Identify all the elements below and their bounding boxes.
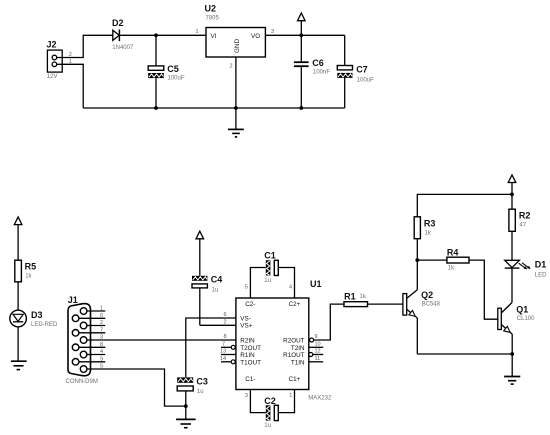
svg-text:12: 12 <box>315 349 321 355</box>
wire R5 to D3 <box>17 282 19 310</box>
pin number 3 (U2) <box>271 29 274 35</box>
node junction C5 top <box>154 33 158 37</box>
svg-text:2: 2 <box>224 319 227 325</box>
svg-text:C3: C3 <box>196 376 208 386</box>
node junction U2 GND <box>234 106 238 110</box>
pin number 9 (J1) <box>100 356 103 362</box>
label R3 <box>424 219 436 229</box>
transistor Q2 <box>403 290 417 318</box>
capacitor C7 <box>337 35 352 108</box>
svg-text:D1: D1 <box>535 260 547 270</box>
label U2 <box>205 4 217 14</box>
value 7805 <box>206 16 220 22</box>
value LED (D1) <box>535 273 547 279</box>
connector J1 (DB9) <box>68 304 91 376</box>
label R2 <box>519 211 531 221</box>
label Q1 <box>516 305 528 315</box>
resistor R3 <box>414 217 420 239</box>
node junction VCC/C6 <box>299 33 303 37</box>
pin number 6 (J1) <box>100 313 103 319</box>
value BC548 <box>422 302 441 308</box>
value CL100 <box>517 316 535 322</box>
IC U1 MAX232 <box>236 298 309 390</box>
wire Q2 collector to R3 <box>416 260 418 290</box>
label D1 <box>535 260 547 270</box>
svg-text:100uF: 100uF <box>168 76 185 82</box>
value 1u (C2) <box>264 423 271 429</box>
svg-text:6: 6 <box>224 312 227 318</box>
svg-text:1: 1 <box>100 306 103 312</box>
svg-text:T2IN: T2IN <box>291 345 305 352</box>
pin number 10 (U1) <box>315 341 321 347</box>
pin number 2 (J1) <box>100 320 103 326</box>
svg-text:R2OUT: R2OUT <box>283 338 304 345</box>
value 100uF (C7) <box>357 77 374 83</box>
pin number 7 (U1) <box>222 341 225 347</box>
svg-text:R2: R2 <box>519 211 531 221</box>
wire bottom rail (top section) <box>83 107 345 109</box>
pin number 2 (U1 VS+) <box>224 319 227 325</box>
svg-text:R2IN: R2IN <box>240 338 255 345</box>
value 1u (C3) <box>197 389 204 395</box>
svg-text:11: 11 <box>315 356 321 362</box>
svg-text:MAX232: MAX232 <box>308 396 332 402</box>
pin number 14 (U1) <box>220 356 226 362</box>
svg-text:CONN-D9M: CONN-D9M <box>66 379 98 385</box>
wire junction to R4 <box>417 259 447 261</box>
pin number 7 (J1) <box>100 327 103 333</box>
svg-text:C5: C5 <box>167 64 179 74</box>
capacitor C1 <box>266 260 279 275</box>
svg-text:R3: R3 <box>424 219 436 229</box>
wire U1 pin4 to C1 <box>278 268 294 299</box>
wire J2 pin2 to diode row <box>57 35 113 57</box>
pin number 8 (J1) <box>100 342 103 348</box>
svg-text:T1IN: T1IN <box>291 359 305 366</box>
wire U1 pin3 to C2 <box>250 390 265 413</box>
value 1N4007 <box>112 45 134 51</box>
pin number 1 (J1) <box>100 306 103 312</box>
pin 13 R1IN stub <box>221 354 236 356</box>
pin number 2 (U2) <box>230 64 233 70</box>
capacitor C6 <box>294 35 309 108</box>
value 100nF <box>313 69 330 75</box>
ground (under C3) <box>176 419 196 427</box>
wire Q1 emitter to bottom rail <box>511 334 513 354</box>
label C4 <box>211 274 223 284</box>
pin 7 T2OUT stub <box>221 345 235 349</box>
power VCC (C4 column) <box>196 231 204 276</box>
wire R3 to junction <box>416 239 418 260</box>
label C6 <box>312 58 324 68</box>
LED D1 <box>505 260 531 269</box>
svg-text:C7: C7 <box>356 64 368 74</box>
svg-text:C2: C2 <box>264 396 276 406</box>
node junction C5 bottom <box>154 106 158 110</box>
wire U1 VS- to C3 <box>186 318 236 377</box>
wire J1 pin1 stub <box>87 310 105 312</box>
svg-text:6: 6 <box>100 313 103 319</box>
svg-text:LED: LED <box>535 273 547 279</box>
value 1k (R1) <box>360 294 367 300</box>
svg-text:Q1: Q1 <box>516 305 528 315</box>
label R5 <box>25 262 37 272</box>
capacitor C5 <box>148 35 164 108</box>
svg-text:100nF: 100nF <box>313 69 330 75</box>
wire J2 pin1 down to bottom rail <box>57 64 83 108</box>
node junction Q1 emitter/ground <box>510 352 514 356</box>
svg-text:7: 7 <box>222 341 225 347</box>
svg-text:C2+: C2+ <box>289 301 301 308</box>
svg-text:R4: R4 <box>447 247 459 257</box>
value 1k (R5) <box>25 274 32 280</box>
svg-text:GND: GND <box>234 39 241 53</box>
capacitor C3 <box>177 377 193 418</box>
label C2 <box>264 396 276 406</box>
wire U1 pin9 to R1 <box>314 304 344 340</box>
pin 10 T2IN stub <box>309 346 323 348</box>
power VCC (top) <box>298 13 306 35</box>
regulator U2 <box>206 28 265 58</box>
wire C4 to U1 VS+ <box>200 324 236 326</box>
svg-text:4: 4 <box>289 284 292 290</box>
label C1 <box>264 250 276 260</box>
wire J1 pin9 stub <box>79 361 105 363</box>
value 47 (R2) <box>519 222 526 228</box>
wire U1 pin1 to C2 <box>278 390 294 413</box>
svg-text:1: 1 <box>289 393 292 399</box>
svg-text:C1: C1 <box>264 250 276 260</box>
svg-text:U2: U2 <box>205 4 217 14</box>
pin number 3 (U1) <box>245 393 248 399</box>
svg-text:2: 2 <box>230 64 233 70</box>
pin 12 R1OUT circle and stub <box>309 353 323 357</box>
svg-text:T2OUT: T2OUT <box>240 345 261 352</box>
svg-text:8: 8 <box>100 342 103 348</box>
ground (right section) <box>504 354 520 384</box>
wire U1 pin5 to C1 <box>250 268 265 299</box>
wire D3 to ground <box>17 327 19 361</box>
svg-text:47: 47 <box>519 222 526 228</box>
svg-text:1k: 1k <box>25 274 32 280</box>
svg-text:VS+: VS+ <box>240 323 252 330</box>
svg-text:T1OUT: T1OUT <box>240 359 261 366</box>
value 100uF (C5) <box>168 76 185 82</box>
wire J1 pin2 stub <box>87 325 105 327</box>
svg-text:1k: 1k <box>448 265 455 271</box>
label D2 <box>112 18 124 28</box>
wire J1 pin5 to C3 ground node <box>87 369 186 406</box>
label C5 <box>167 64 179 74</box>
wire U2 VO to C7 branch <box>265 34 344 36</box>
svg-text:7805: 7805 <box>206 16 220 22</box>
svg-text:U1: U1 <box>310 279 322 289</box>
pin number 13 (U1) <box>220 349 226 355</box>
label R1 <box>344 291 356 301</box>
svg-text:13: 13 <box>220 349 226 355</box>
svg-text:C2-: C2- <box>245 301 255 308</box>
svg-text:R1IN: R1IN <box>240 352 255 359</box>
wire J1 pin4 stub <box>87 354 105 356</box>
node junction VCC/R2 <box>510 193 514 197</box>
pin 9 R2OUT circle <box>310 338 314 342</box>
svg-text:1: 1 <box>196 29 199 35</box>
svg-text:100uF: 100uF <box>357 77 374 83</box>
label R4 <box>447 247 459 257</box>
node junction C6 bottom <box>299 106 303 110</box>
value 12V <box>47 74 58 80</box>
svg-text:9: 9 <box>100 356 103 362</box>
wire R1 to Q2 base <box>368 303 403 305</box>
pin number 4 (U1) <box>289 284 292 290</box>
svg-text:1u: 1u <box>264 423 271 429</box>
pin number 2 (J2) <box>69 52 72 58</box>
svg-text:1k: 1k <box>360 294 367 300</box>
svg-text:C6: C6 <box>312 58 324 68</box>
svg-text:BC548: BC548 <box>422 302 441 308</box>
svg-text:14: 14 <box>220 356 226 362</box>
svg-text:D2: D2 <box>112 18 124 28</box>
svg-text:C4: C4 <box>211 274 223 284</box>
svg-text:VS-: VS- <box>240 316 251 323</box>
capacitor C4 <box>192 276 207 326</box>
svg-text:5: 5 <box>100 364 103 370</box>
transistor Q1 <box>498 303 512 335</box>
value CONN-D9M <box>66 379 98 385</box>
label C3 <box>196 376 208 386</box>
pin number 5 (U1) <box>245 284 248 290</box>
pin number 1 (J2) <box>69 59 72 65</box>
diode D2 <box>113 30 120 42</box>
svg-text:VI: VI <box>211 33 217 40</box>
svg-text:7: 7 <box>100 327 103 333</box>
wire J1 pin6 stub <box>79 317 105 319</box>
svg-text:1u: 1u <box>197 389 204 395</box>
svg-text:R1: R1 <box>344 291 356 301</box>
pin number 11 (U1) <box>315 356 321 362</box>
svg-text:3: 3 <box>271 29 274 35</box>
node junction C3/J1 pin5 ground <box>184 404 188 408</box>
ground (under U2) <box>228 108 244 137</box>
svg-text:1u: 1u <box>212 287 219 293</box>
capacitor C2 <box>266 405 279 420</box>
svg-text:J1: J1 <box>68 295 78 305</box>
resistor R4 <box>447 257 469 263</box>
wire Q1 collector to D1 <box>511 268 513 302</box>
svg-text:10: 10 <box>315 341 321 347</box>
wire U2 GND pin down <box>235 57 237 108</box>
pin number 1 (U2) <box>196 29 199 35</box>
label D3 <box>31 310 43 320</box>
label J1 <box>68 295 78 305</box>
pin number 12 (U1) <box>315 349 321 355</box>
power VCC (R5 column) <box>14 217 22 260</box>
svg-text:VO: VO <box>251 33 260 40</box>
pin number 1 (U1) <box>289 393 292 399</box>
value LED-RED <box>31 322 58 328</box>
node junction R3/R4/Q2 <box>415 258 419 262</box>
value MAX232 <box>308 396 332 402</box>
wire bottom rail (right section) <box>417 353 512 355</box>
pin number 9 (U1) <box>315 334 318 340</box>
wire J1 pin7 stub <box>79 332 105 334</box>
svg-text:1N4007: 1N4007 <box>112 45 134 51</box>
value 1u (C1) <box>264 278 271 284</box>
value 1u (C4) <box>212 287 219 293</box>
label U1 <box>310 279 322 289</box>
svg-text:D3: D3 <box>31 310 43 320</box>
svg-text:CL100: CL100 <box>517 316 535 322</box>
svg-text:12V: 12V <box>47 74 58 80</box>
svg-text:2: 2 <box>100 320 103 326</box>
svg-text:3: 3 <box>245 393 248 399</box>
pin 11 T1IN stub <box>309 361 323 363</box>
svg-text:1u: 1u <box>264 278 271 284</box>
svg-text:J2: J2 <box>47 40 57 50</box>
label C7 <box>356 64 368 74</box>
resistor R1 <box>344 302 368 307</box>
svg-text:1k: 1k <box>425 230 432 236</box>
resistor R2 <box>509 194 515 260</box>
wire Q2 emitter to bottom rail <box>416 318 418 354</box>
connector J2 <box>47 50 62 72</box>
svg-text:R1OUT: R1OUT <box>283 352 304 359</box>
svg-text:LED-RED: LED-RED <box>31 322 58 328</box>
wire R4 to Q1 base <box>469 260 498 319</box>
LED D3 <box>10 310 27 327</box>
wire diode cathode to U2 VI <box>119 34 206 36</box>
ground (under D3) <box>11 361 27 369</box>
pin 14 T1OUT stub <box>221 360 235 364</box>
resistor R5 <box>15 260 22 282</box>
wire top rail (right section) <box>417 194 512 216</box>
svg-text:9: 9 <box>315 334 318 340</box>
label Q2 <box>421 290 433 300</box>
wire J1 pin8 stub <box>79 346 105 348</box>
svg-text:4: 4 <box>100 349 103 355</box>
pin number 3 (J1) <box>100 335 103 341</box>
label J2 <box>47 40 57 50</box>
pin number 5 (J1) <box>100 364 103 370</box>
value 1k (R3) <box>425 230 432 236</box>
pin number 8 (U1 R2IN) <box>224 334 227 340</box>
svg-text:C1-: C1- <box>245 376 255 383</box>
svg-text:R5: R5 <box>25 262 37 272</box>
svg-text:3: 3 <box>100 335 103 341</box>
svg-text:8: 8 <box>224 334 227 340</box>
svg-text:Q2: Q2 <box>421 290 433 300</box>
pin number 4 (J1) <box>100 349 103 355</box>
wire J1 pin3 to U1 R2IN <box>87 339 236 341</box>
pin number 6 (U1 VS-) <box>224 312 227 318</box>
svg-text:5: 5 <box>245 284 248 290</box>
power VCC (right) <box>508 175 516 195</box>
svg-text:C1+: C1+ <box>289 376 301 383</box>
value 1k (R4) <box>448 265 455 271</box>
